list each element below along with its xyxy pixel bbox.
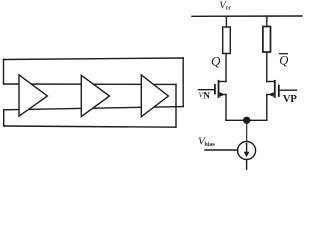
wire right vertical inner [175,84,177,127]
wire top feedback line [4,58,184,60]
node common source junction [243,117,250,124]
svg-text:bias: bias [205,142,216,148]
transistor M1 gate bar [214,85,216,94]
wire common source line [226,119,267,121]
wire M1 source lead [225,95,227,121]
transistor M2 gate bar [278,86,280,97]
wire Vcc rail [192,15,302,17]
transistor M1 source stub [219,94,227,96]
svg-text:Q: Q [211,54,221,69]
wire right vertical outer [182,58,184,107]
wire left branch top lead [225,16,227,27]
wire left vertical upper [3,60,5,85]
transistor M2 channel bar [274,81,276,97]
buffer A1 [19,75,47,116]
buffer A3 [141,75,168,117]
wire Vbias lead [205,149,238,151]
svg-text:VP: VP [283,93,297,105]
transistor M1 source arrow [220,92,225,97]
wire current source bottom lead [246,160,248,170]
label Vbias [198,136,216,149]
wire upper signal line [4,83,177,85]
wire lower signal line [4,107,184,110]
wire M2 gate lead [279,89,297,91]
svg-text:N: N [203,92,210,102]
label Qbar [279,54,288,68]
wire right branch top lead [266,16,268,27]
resistor left [223,27,231,54]
current source arrow [246,144,248,154]
svg-text:cc: cc [226,5,232,12]
transistor M1 drain stub [219,81,227,83]
wire node to current source [246,123,248,142]
transistor M2 source stub [267,94,275,96]
label Vcc [219,1,231,12]
label VN [199,92,211,102]
wire M2 source lead [266,95,268,121]
svg-text:Q: Q [279,54,288,68]
wire right branch drain lead [266,52,268,82]
wire left branch drain lead [225,54,227,82]
transistor M1 channel bar [218,81,220,97]
wire bottom feedback line [4,126,176,127]
wire M1 gate lead [199,89,215,91]
current source I1 [238,142,256,160]
wire left vertical lower [3,110,5,126]
buffer A2 [81,75,109,116]
resistor right [263,27,271,53]
transistor M2 source arrow [269,92,274,97]
transistor M2 drain stub [267,81,275,83]
